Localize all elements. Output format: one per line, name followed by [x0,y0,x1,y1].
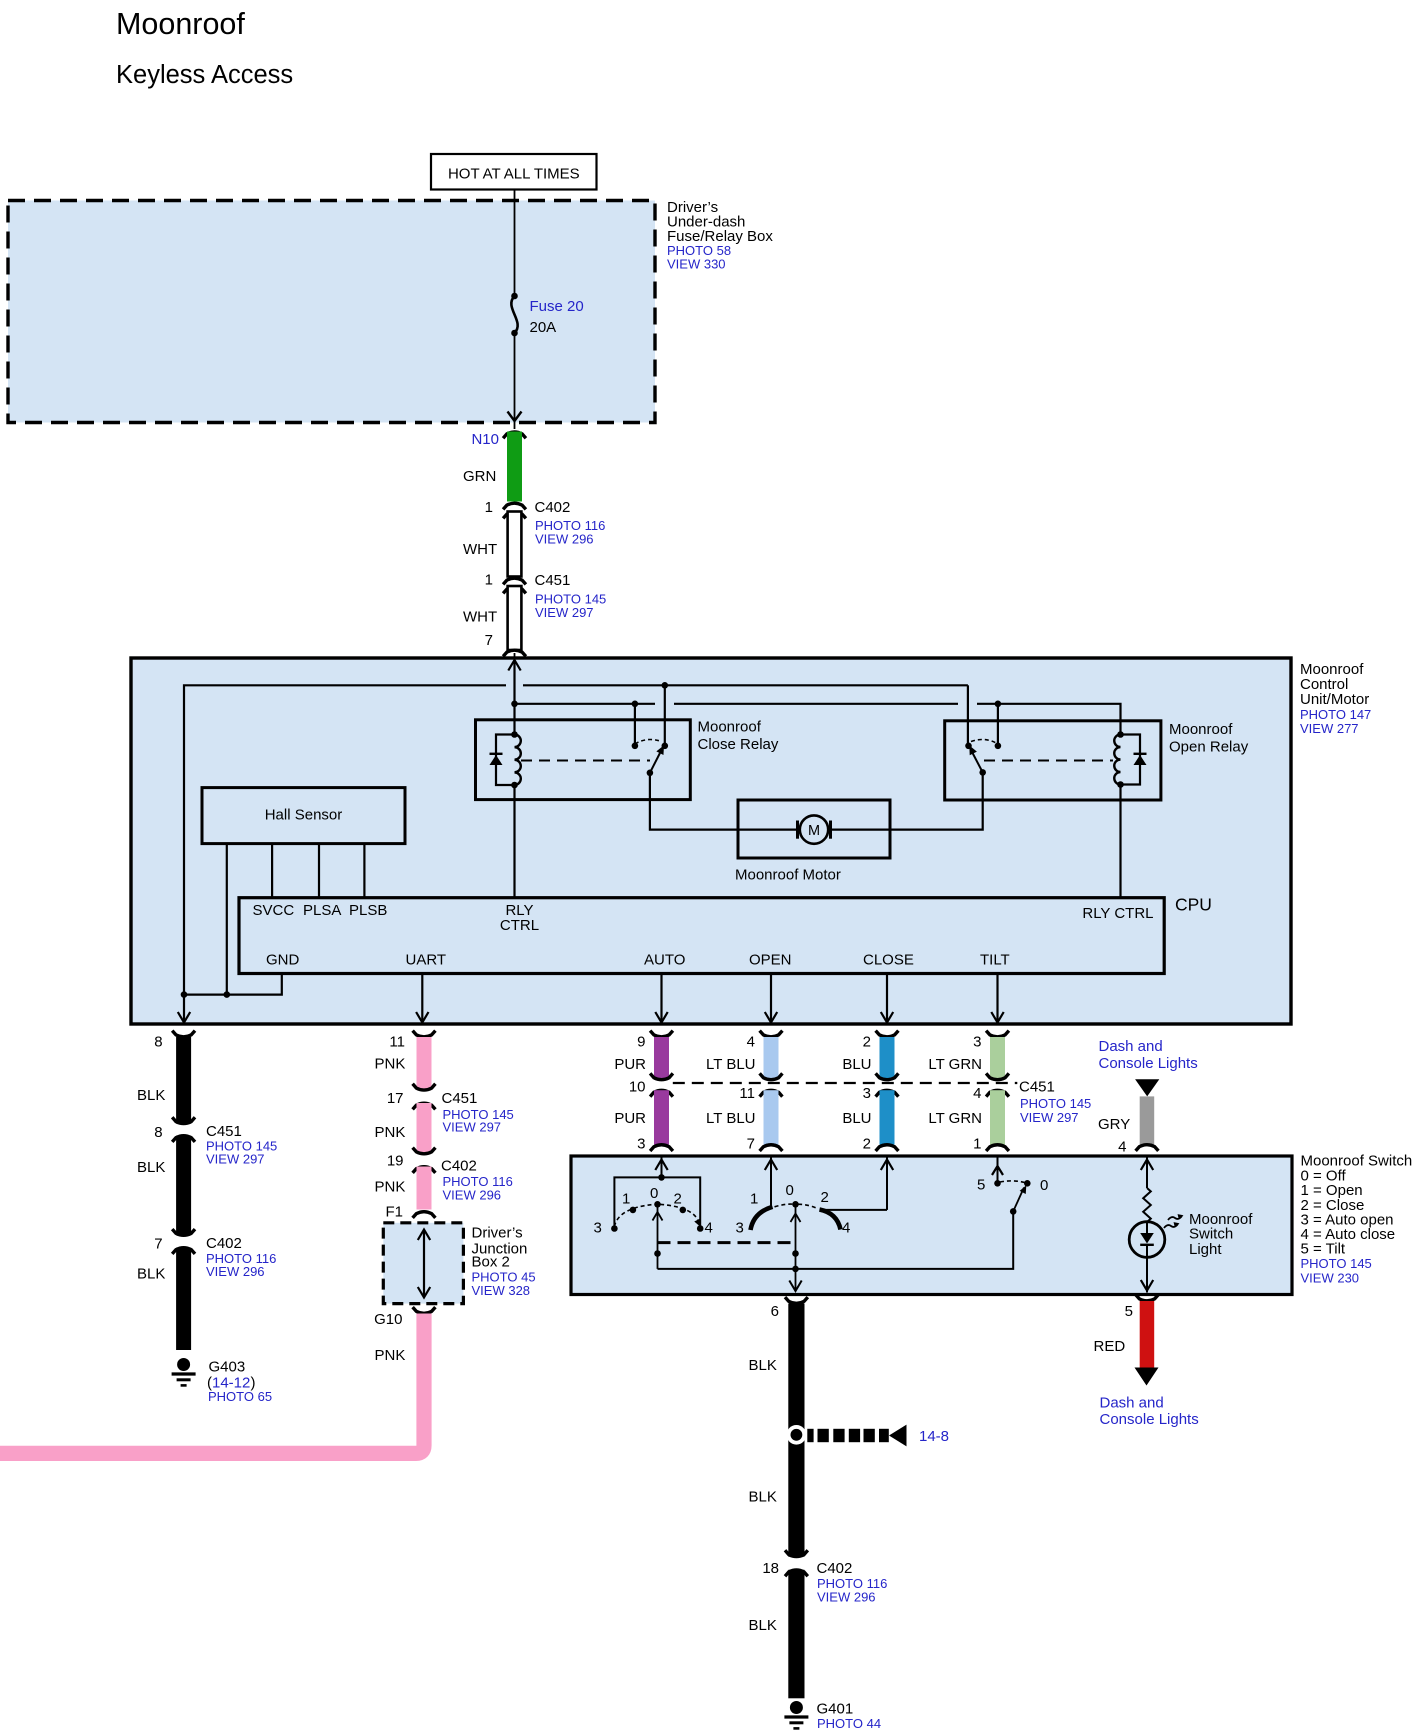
connector C451 dashed line [673,1082,1018,1084]
open relay right contact [995,743,1002,750]
svg-text:LT GRN: LT GRN [928,1110,982,1127]
svg-text:BLK: BLK [749,1617,777,1634]
svg-text:1: 1 [973,1136,981,1153]
wire BLK pin 8 seg1 [172,1031,195,1124]
svg-text:CLOSE: CLOSE [863,952,914,969]
svg-text:Open Relay: Open Relay [1169,739,1249,756]
svg-text:1: 1 [485,572,493,589]
svg-text:3: 3 [863,1085,871,1102]
svg-text:PHOTO 147: PHOTO 147 [1300,707,1371,722]
svg-text:Fuse 20: Fuse 20 [530,298,584,315]
wire to close relay left contact [634,704,636,746]
wire LT BLU pin 4-11-7 [739,1031,782,1153]
open relay pivot contact [965,743,972,750]
svg-text:4: 4 [705,1220,713,1237]
svg-text:PUR: PUR [614,1056,646,1073]
svg-text:2: 2 [863,1034,871,1051]
connector pin 5 [1125,1295,1159,1320]
wire open out [770,974,772,1024]
svg-text:PLSB: PLSB [349,902,387,919]
svg-text:8: 8 [154,1034,162,1051]
svg-text:5: 5 [977,1177,985,1194]
svg-text:1: 1 [485,499,493,516]
svg-text:WHT: WHT [463,609,497,626]
node auto bracket [658,1174,665,1181]
label connector C451 [1019,1079,1091,1126]
svg-text:Box 2: Box 2 [472,1254,510,1271]
fuse/relay box Driver's Under-dash [8,201,655,423]
svg-text:G10: G10 [374,1311,402,1328]
arrow to dash lights [1135,1368,1159,1386]
svg-text:AUTO: AUTO [644,952,685,969]
open relay arm [969,745,986,775]
svg-text:VIEW 296: VIEW 296 [535,532,594,547]
wire GRY [1140,1096,1155,1144]
wire hot feed [514,190,516,411]
driver's junction box 2 [383,1223,463,1304]
svg-text:VIEW 296: VIEW 296 [443,1188,502,1203]
switch tilt arm [1010,1185,1026,1214]
switch auto dashed arcs [614,1204,700,1226]
wire hall gnd [226,844,228,995]
open relay mech link [984,760,1113,762]
label Dash and Console Lights bottom [1100,1395,1199,1429]
connector C451 pin 8 [154,1117,277,1166]
svg-text:19: 19 [387,1153,404,1170]
svg-text:3: 3 [736,1220,744,1237]
wire PNK seg3 [417,1167,432,1210]
svg-text:RED: RED [1094,1338,1126,1355]
wire PNK to left edge [0,1314,424,1454]
wire PNK pin 11 seg1 [413,1031,436,1091]
svg-text:BLK: BLK [137,1266,165,1283]
svg-text:PHOTO 145: PHOTO 145 [1301,1256,1372,1271]
svg-text:F1: F1 [385,1204,403,1221]
switch openclose dashed arcs [775,1204,818,1209]
svg-text:WHT: WHT [463,541,497,558]
arrow tilt pin 3 [991,1012,1003,1023]
wire PUR pin 9-10-3 [629,1031,673,1153]
switch light wire mid [1146,1222,1148,1231]
svg-text:Console Lights: Console Lights [1099,1055,1198,1072]
svg-text:PNK: PNK [375,1347,406,1364]
label Moonroof Switch Light [1189,1211,1253,1258]
svg-text:2: 2 [674,1191,682,1208]
svg-text:0: 0 [650,1185,658,1202]
svg-text:9: 9 [637,1034,645,1051]
svg-text:10: 10 [629,1079,646,1096]
svg-text:0: 0 [786,1182,794,1199]
switch light emission arrows [1164,1214,1184,1228]
wire open relay coil to cpu [1119,785,1121,898]
svg-text:C402: C402 [535,499,571,516]
svg-text:PHOTO 145: PHOTO 145 [1020,1096,1091,1111]
label box HOT AT ALL TIMES [431,154,597,190]
svg-text:C402: C402 [206,1235,242,1252]
connector F1 [385,1204,435,1221]
label Moonroof Switch legend [1301,1153,1413,1286]
moonroof switch box [571,1156,1292,1295]
wire WHT 1 [508,512,522,577]
svg-text:2: 2 [863,1136,871,1153]
svg-text:4: 4 [1118,1139,1126,1156]
svg-text:5 = Tilt: 5 = Tilt [1301,1241,1346,1258]
arrow auto pin 9 [655,1012,667,1023]
wire into control unit [514,653,516,658]
svg-text:BLK: BLK [749,1357,777,1374]
svg-text:Dash and: Dash and [1099,1038,1163,1055]
arrow open pin 4 [765,1012,777,1023]
wire to close relay pivot contact [664,685,666,746]
switch tilt input [992,1156,1003,1183]
connector pin 6 [771,1297,808,1320]
svg-text:11: 11 [389,1034,405,1051]
svg-text:PHOTO 44: PHOTO 44 [817,1716,881,1731]
svg-text:GRY: GRY [1098,1116,1130,1133]
svg-text:SVCC: SVCC [253,902,295,919]
wire BLK pin6 seg1 [788,1304,804,1557]
switch tilt contacts [994,1180,1030,1187]
svg-text:PHOTO 65: PHOTO 65 [208,1389,272,1404]
svg-text:4: 4 [747,1034,755,1051]
svg-text:Hall Sensor: Hall Sensor [265,807,343,824]
svg-text:Dash and: Dash and [1100,1395,1164,1412]
svg-text:Moonroof: Moonroof [116,7,245,41]
wire to open relay right contact [997,704,999,746]
wire hall svcc [271,844,273,898]
switch auto contacts [611,1201,703,1232]
moonroof switch light LED [1129,1222,1165,1258]
svg-text:VIEW 328: VIEW 328 [472,1283,531,1298]
svg-text:BLU: BLU [842,1056,871,1073]
switch openclose wiper [789,1204,801,1291]
wire hall plsb [363,844,365,898]
switch light resistor [1143,1188,1151,1222]
node open relay right contact feed [995,701,1002,708]
ground G401 [784,1701,881,1732]
svg-text:VIEW 230: VIEW 230 [1301,1270,1360,1285]
svg-text:1: 1 [750,1191,758,1208]
svg-text:Keyless Access: Keyless Access [116,61,293,89]
switch numbers auto [594,1185,713,1237]
wire to N10 [514,422,516,430]
svg-text:Switch: Switch [1189,1226,1233,1243]
label Moonroof Close Relay [698,719,779,754]
cpu pin labels top [253,902,1154,934]
wire LT GRN pin 3-4-1 [973,1031,1009,1153]
close relay coil [511,731,521,788]
node close relay pivot feed [662,682,669,689]
close relay left contact [632,743,639,750]
moonroof motor box [738,800,890,858]
svg-text:VIEW 296: VIEW 296 [206,1264,265,1279]
svg-text:7: 7 [154,1236,162,1253]
switch auto input arrow [655,1156,667,1177]
fuse Fuse 20 20A [511,293,584,337]
close relay diode [490,735,515,786]
svg-text:17: 17 [387,1090,404,1107]
wire gnd from cpu [181,974,282,998]
svg-text:Light: Light [1189,1241,1222,1258]
svg-text:PUR: PUR [614,1110,646,1127]
wire power bus line B [515,704,1121,735]
wire ground bus line A [184,685,968,1023]
wire open relay output to motor [890,772,983,829]
svg-text:LT GRN: LT GRN [928,1056,982,1073]
arrow uart pin 11 [416,1012,428,1023]
svg-text:LT BLU: LT BLU [706,1056,755,1073]
svg-text:BLK: BLK [137,1159,165,1176]
switch light input [1141,1156,1153,1188]
wire power to close relay coil [513,660,515,735]
svg-text:18: 18 [762,1560,779,1577]
svg-text:4: 4 [842,1220,850,1237]
cpu pin labels bottom [266,952,1010,969]
svg-text:11: 11 [739,1085,755,1102]
wire BLK seg2 [176,1136,191,1236]
svg-text:2: 2 [821,1189,829,1206]
svg-text:PNK: PNK [375,1124,406,1141]
svg-text:GRN: GRN [463,468,496,485]
arrow from dash lights [1135,1079,1159,1096]
arrow power entry [508,660,520,671]
svg-text:GND: GND [266,952,300,969]
svg-text:1: 1 [622,1191,630,1208]
svg-text:LT BLU: LT BLU [706,1110,755,1127]
connector G10 [374,1307,435,1328]
svg-text:C451: C451 [206,1123,242,1140]
svg-text:Close Relay: Close Relay [698,736,779,753]
svg-text:Moonroof: Moonroof [1169,721,1233,738]
svg-text:20A: 20A [530,319,557,336]
svg-text:PLSA: PLSA [303,902,341,919]
svg-text:BLK: BLK [137,1087,165,1104]
junction box internal wire [418,1230,430,1298]
wire GRN N10 [507,432,522,502]
close relay mech link [521,760,650,762]
switch numbers tilt [977,1177,1048,1195]
connector C451 pin 17 [387,1084,514,1135]
svg-text:OPEN: OPEN [749,952,792,969]
svg-text:VIEW 297: VIEW 297 [535,605,594,620]
mech link dashed [658,1241,796,1244]
cpu box [239,898,1164,974]
moonroof open relay box [945,721,1161,800]
svg-text:Moonroof: Moonroof [698,719,762,736]
hall sensor box [202,788,405,844]
switch openclose thick arc left [751,1207,773,1230]
node power junction line B [511,701,518,708]
svg-text:VIEW 296: VIEW 296 [817,1590,876,1605]
svg-text:4: 4 [973,1085,981,1102]
wire tilt out [996,974,998,1024]
svg-text:G401: G401 [817,1701,854,1718]
switch numbers openclose [736,1182,851,1237]
svg-text:6: 6 [771,1303,779,1320]
svg-text:BLU: BLU [842,1110,871,1127]
svg-text:C451: C451 [535,572,571,589]
svg-text:14-8: 14-8 [919,1428,949,1445]
wire BLK seg3 [176,1248,191,1351]
open relay diode [1121,735,1147,785]
switch open input [765,1156,777,1208]
switch light output [1141,1257,1153,1292]
close relay arm [647,745,664,776]
moonroof control unit/motor box [131,658,1291,1024]
switch tilt dashed [1000,1181,1025,1183]
wire hall plsa [318,844,320,898]
svg-text:Moonroof Motor: Moonroof Motor [735,867,841,884]
svg-text:HOT AT ALL TIMES: HOT AT ALL TIMES [448,166,580,183]
svg-text:M: M [808,823,820,839]
svg-text:5: 5 [1125,1303,1133,1320]
motor M symbol [738,815,890,843]
svg-text:Unit/Motor: Unit/Motor [1300,691,1369,708]
wire PNK seg2 [417,1103,432,1154]
svg-text:Driver’s: Driver’s [472,1225,523,1242]
close relay contact dashed throw [635,740,662,745]
splice 14-8 junction [787,1425,807,1445]
svg-text:3: 3 [594,1220,602,1237]
svg-text:C451: C451 [1019,1079,1055,1096]
svg-text:CTRL: CTRL [500,917,539,934]
wire auto out [660,974,662,1024]
switch openclose pivot [792,1201,799,1208]
arrow close pin 2 [881,1012,893,1023]
svg-text:VIEW 297: VIEW 297 [206,1152,265,1167]
switch common bus [658,1211,1014,1269]
connector N10 [503,432,526,438]
svg-text:VIEW 297: VIEW 297 [443,1120,502,1135]
svg-text:TILT: TILT [980,952,1010,969]
wire close relay output to motor [650,773,738,830]
wire close relay coil to cpu [513,785,515,898]
svg-text:BLK: BLK [749,1489,777,1506]
wire WHT 2 [508,586,522,650]
svg-text:N10: N10 [471,431,499,448]
svg-text:3: 3 [637,1136,645,1153]
open relay contact dashed throw [971,740,998,745]
svg-text:VIEW 277: VIEW 277 [1300,721,1359,736]
wire RED [1140,1301,1155,1368]
svg-text:7: 7 [747,1136,755,1153]
node close relay left contact feed [632,701,639,708]
connector C451 pin 1-7 [485,572,607,621]
switch auto bracket [614,1177,700,1228]
connector C402 pin 19 [387,1148,513,1203]
close relay pivot contact [662,743,669,750]
connector GRY pin 4 [1118,1139,1158,1156]
svg-text:RLY CTRL: RLY CTRL [1082,905,1153,922]
connector C402 pin 18 [762,1550,887,1604]
svg-text:UART: UART [406,952,447,969]
wire uart out [421,974,423,1024]
label Dash and Console Lights top [1099,1038,1198,1072]
wire BLK pin6 seg2 [788,1570,804,1699]
svg-text:G403: G403 [209,1359,246,1376]
switch close input [820,1156,894,1210]
label Driver's Junction Box 2 [472,1225,536,1299]
connector C402 pin 1 [485,499,606,547]
label Driver's Under-dash Fuse/Relay Box [667,199,773,272]
arrow gnd pin 8 [178,1012,190,1023]
svg-text:PNK: PNK [375,1056,406,1073]
switch openclose thick arc right [820,1210,841,1230]
svg-text:7: 7 [485,632,493,649]
ground G403 [172,1358,272,1404]
svg-text:VIEW 297: VIEW 297 [1020,1110,1079,1125]
svg-text:C402: C402 [441,1158,477,1175]
svg-text:3: 3 [973,1034,981,1051]
svg-text:8: 8 [154,1124,162,1141]
svg-text:Console Lights: Console Lights [1100,1411,1199,1428]
connector C402 pin 7 [154,1229,276,1279]
svg-text:VIEW 330: VIEW 330 [667,257,726,272]
svg-text:CPU: CPU [1175,895,1212,915]
moonroof close relay box [476,720,691,800]
dashed link to 14-8 [807,1425,949,1447]
svg-text:0: 0 [1040,1177,1048,1194]
wire close out [886,974,888,1024]
label Moonroof Control Unit/Motor [1300,661,1371,736]
open relay coil [1114,731,1124,788]
label Moonroof Open Relay [1169,721,1249,756]
svg-text:C451: C451 [442,1090,478,1107]
connector pin7 cap [503,650,526,656]
svg-text:C402: C402 [817,1560,853,1577]
wire BLU pin 2-3-2 [863,1031,899,1153]
switch auto wiper link [653,1204,663,1269]
svg-text:PNK: PNK [375,1179,406,1196]
arrow fuse output [508,410,522,421]
